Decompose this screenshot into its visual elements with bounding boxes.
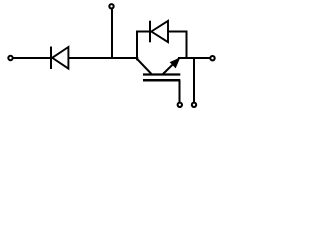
terminal T1 (left main, anode side) bbox=[8, 56, 12, 60]
diode D2 triangle (points left) bbox=[151, 21, 168, 42]
diode D1 triangle (points left) bbox=[52, 47, 68, 69]
transistor Q1 IGBT emitter lead (diagonal) bbox=[163, 58, 180, 74]
wire branch top horizontal bbox=[136, 31, 188, 33]
wire auxiliary emitter drop bbox=[193, 58, 195, 102]
transistor Q1 IGBT gate bar bbox=[143, 79, 180, 82]
terminal T3 (right emitter) bbox=[210, 56, 214, 60]
transistor Q1 IGBT collector lead (diagonal) bbox=[138, 60, 152, 74]
wire emitter rail bbox=[178, 57, 210, 59]
diode D1 cathode bar bbox=[50, 47, 52, 70]
wire branch right vertical bbox=[186, 31, 188, 59]
wire gate lead bbox=[179, 80, 181, 102]
terminal T5 (auxiliary emitter) bbox=[192, 103, 196, 107]
terminal T2 (top collector) bbox=[109, 4, 113, 8]
terminal T4 (gate) bbox=[178, 103, 182, 107]
transistor Q1 emitter arrowhead bbox=[171, 59, 180, 68]
transistor Q1 IGBT body bar bbox=[143, 73, 180, 75]
wire main horizontal bbox=[14, 57, 139, 59]
wire top terminal drop bbox=[111, 9, 113, 59]
diode D2 cathode bar bbox=[149, 21, 151, 43]
wire branch left vertical bbox=[136, 31, 138, 61]
